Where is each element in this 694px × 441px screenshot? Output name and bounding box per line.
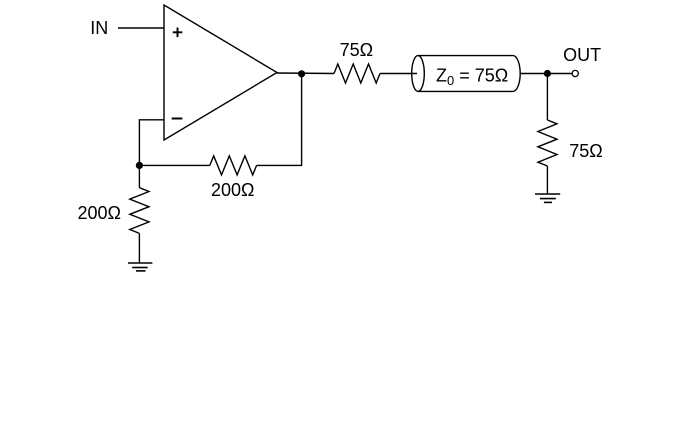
- svg-text:75Ω: 75Ω: [340, 40, 373, 60]
- wire resistor R3 to ground: [546, 166, 548, 194]
- svg-text:Z0 = 75Ω: Z0 = 75Ω: [436, 66, 508, 88]
- svg-text:OUT: OUT: [563, 45, 601, 65]
- ground left: [128, 263, 152, 271]
- svg-text:75Ω: 75Ω: [569, 141, 602, 161]
- resistor R1 75Ω series: [334, 64, 380, 83]
- wire feedback node to resistor R4: [138, 165, 140, 187]
- wire resistor R1 to coax: [380, 73, 417, 75]
- resistor R4 200Ω to ground: [130, 188, 149, 234]
- svg-text:IN: IN: [90, 18, 108, 38]
- op-amp U1: [164, 5, 277, 140]
- node op-amp output junction: [298, 70, 305, 77]
- svg-text:200Ω: 200Ω: [77, 203, 121, 223]
- resistor R2 200Ω feedback: [210, 156, 257, 175]
- svg-text:200Ω: 200Ω: [211, 180, 255, 200]
- wire feedback node to resistor R2: [139, 164, 209, 166]
- wire IN to op-amp noninverting input: [118, 27, 164, 29]
- node feedback junction: [136, 162, 143, 169]
- resistor R3 75Ω shunt: [538, 120, 557, 166]
- transmission line T1 coax Z0 = 75Ω: [412, 56, 521, 92]
- wire resistor R2 to output node: [257, 74, 302, 166]
- terminal OUT: [572, 70, 578, 76]
- node OUT junction: [544, 70, 551, 77]
- wire OUT node to resistor R3: [546, 74, 548, 121]
- wire op-amp inverting input to feedback node: [139, 120, 164, 166]
- wire op-amp output: [277, 72, 334, 75]
- wire resistor R4 to ground: [138, 233, 140, 263]
- wire coax to OUT node: [520, 73, 572, 75]
- ground right: [535, 194, 560, 202]
